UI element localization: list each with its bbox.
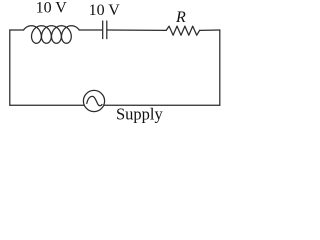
svg-text:10 V: 10 V [89,2,121,19]
wire bottom-right segment [104,104,220,106]
capacitor C1 left plate [102,21,104,39]
wire top-left segment [10,29,24,31]
wire inductor to capacitor [79,29,102,31]
svg-text:R: R [175,9,186,26]
wire capacitor to resistor [107,29,166,31]
AC source circle [83,90,104,111]
capacitor C1 right plate [106,21,108,39]
wire resistor to top-right corner [200,29,220,31]
svg-text:Supply: Supply [116,104,164,123]
wire right vertical [219,30,221,105]
wire left vertical [9,30,11,105]
inductor L1 coil [24,26,80,44]
wire bottom-left segment [10,104,85,106]
svg-text:10 V: 10 V [36,0,68,17]
resistor R zigzag [166,26,199,35]
AC source sine wave [87,96,102,105]
